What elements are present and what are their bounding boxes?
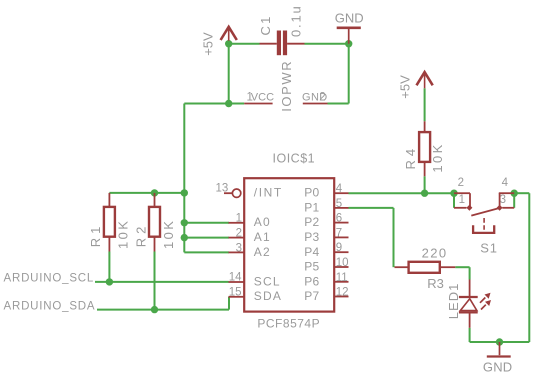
wire down to LED anode [469, 267, 471, 279]
svg-text:SCL: SCL [254, 274, 281, 288]
IOPWR VCC pin 1 [244, 103, 272, 105]
wire R1 R2 tops [109, 192, 184, 194]
svg-text:10K: 10K [430, 142, 445, 172]
wire SDA riser to pin 15 [228, 297, 230, 310]
wire IOPWR GND pin to GND [328, 103, 349, 105]
svg-text:A0: A0 [254, 215, 271, 229]
pin number 1 and name VCC [247, 91, 275, 103]
svg-text:P2: P2 [304, 215, 319, 229]
LED LED1 [459, 280, 491, 328]
svg-text:3: 3 [236, 242, 242, 254]
pin 12 stub P7 [334, 296, 348, 298]
svg-text:220: 220 [422, 246, 448, 261]
wire LED cathode down [469, 328, 471, 342]
svg-text:P7: P7 [304, 289, 319, 303]
svg-text:4: 4 [336, 183, 343, 195]
resistor R2 [149, 193, 160, 252]
ground GND top [337, 28, 361, 44]
wire net ARDUINO_SCL [95, 281, 229, 283]
wire C1 right to GND [305, 43, 349, 45]
wire bottom to LED cathode [470, 341, 530, 343]
svg-text:1: 1 [459, 194, 465, 206]
wire right edge down [528, 193, 530, 342]
svg-text:R2: R2 [134, 223, 149, 248]
resistor R1 [104, 193, 115, 252]
svg-text:2: 2 [458, 177, 464, 189]
pin 3 stub A2 [229, 251, 245, 253]
pin 2 stub A1 [229, 237, 245, 239]
pin 10 stub P5 [334, 266, 348, 268]
junction rail/A1 [181, 234, 188, 241]
svg-text:R1: R1 [88, 223, 103, 248]
wire to pin A0 [184, 222, 229, 224]
svg-text:GND: GND [335, 11, 364, 26]
svg-text:15: 15 [229, 286, 242, 298]
resistor R4 [419, 121, 430, 176]
svg-text:P0: P0 [304, 186, 319, 200]
svg-text:P3: P3 [304, 230, 319, 244]
junction rail/A0 [181, 219, 188, 226]
svg-text:SDA: SDA [254, 289, 282, 303]
wire net ARDUINO_SDA [97, 309, 229, 311]
wire switch right [514, 192, 529, 194]
svg-text:C1: C1 [258, 14, 273, 35]
wire VCC rail down left side [183, 104, 185, 253]
wire GND down to IOPWR GND pin [348, 44, 350, 104]
junction switch left [450, 190, 457, 197]
pin 5 stub P1 [334, 207, 348, 209]
pin 13 /INT stub and bubble [224, 189, 241, 197]
svg-text:A2: A2 [254, 245, 271, 259]
svg-text:LED1: LED1 [446, 283, 461, 320]
wire R3 right [455, 266, 469, 268]
svg-text:+5V: +5V [201, 32, 216, 56]
junction VCC node [225, 100, 232, 107]
junction switch right [511, 190, 518, 197]
wire +5V to R4 top [424, 88, 426, 121]
pin name GND and number 2 [302, 91, 328, 103]
pin 11 stub P6 [334, 281, 348, 283]
svg-text:3: 3 [500, 194, 506, 206]
svg-text:4: 4 [502, 177, 509, 189]
wire VCC node to IOPWR VCC pin [229, 103, 245, 105]
svg-text:2: 2 [319, 91, 325, 103]
svg-text:/INT: /INT [254, 186, 283, 200]
wire P1 down [393, 208, 395, 267]
svg-text:GND: GND [483, 359, 513, 374]
svg-text:P1: P1 [304, 200, 319, 214]
junction GND bottom [496, 338, 503, 345]
svg-text:A1: A1 [254, 230, 271, 244]
svg-text:VCC: VCC [251, 91, 274, 103]
svg-text:P4: P4 [304, 245, 319, 259]
wire R2 bottom to SDA [154, 252, 156, 310]
svg-text:2: 2 [236, 228, 242, 240]
svg-text:S1: S1 [480, 240, 498, 255]
svg-text:ARDUINO_SDA: ARDUINO_SDA [4, 301, 96, 313]
svg-text:14: 14 [229, 272, 242, 284]
svg-text:5: 5 [336, 198, 342, 210]
svg-text:IOPWR: IOPWR [279, 60, 294, 112]
svg-text:6: 6 [336, 213, 342, 225]
junction rail/R tops [181, 189, 188, 196]
ground GND bottom [487, 342, 511, 357]
wire +5V down to VCC node [228, 44, 230, 104]
wire switch pins 3-4 [513, 193, 515, 208]
wire switch pins 1-2 [453, 193, 455, 208]
wire P1 out [349, 207, 394, 209]
svg-text:ARDUINO_SCL: ARDUINO_SCL [4, 273, 95, 285]
resistor R3 [395, 262, 456, 273]
svg-text:1: 1 [236, 213, 242, 225]
junction R2 top [151, 189, 158, 196]
pin 15 stub SDA [229, 296, 245, 298]
pin 7 stub P3 [334, 236, 348, 238]
pin 6 stub P2 [334, 222, 348, 224]
op IC box U1 PCF8574P [244, 178, 334, 311]
supply +5V right arrow [417, 72, 433, 88]
wire R1 bottom to SCL [108, 252, 110, 282]
svg-text:P6: P6 [304, 274, 319, 288]
wire to pin A2 [184, 251, 229, 253]
svg-text:9: 9 [336, 242, 342, 254]
svg-text:+5V: +5V [397, 75, 412, 99]
svg-text:7: 7 [336, 227, 342, 239]
pin 4 stub P0 [334, 192, 348, 194]
svg-text:12: 12 [336, 287, 349, 299]
wire to pin A1 [184, 237, 229, 239]
svg-text:10: 10 [336, 257, 349, 269]
svg-text:R4: R4 [403, 145, 418, 170]
svg-text:10K: 10K [115, 219, 130, 249]
wire +5V to C1 left [229, 43, 260, 45]
IOPWR GND pin 2 [303, 103, 328, 105]
svg-text:PCF8574P: PCF8574P [257, 317, 320, 331]
pin 9 stub P4 [334, 251, 348, 253]
supply +5V left arrow [221, 27, 237, 41]
svg-text:P5: P5 [304, 260, 319, 274]
svg-text:10K: 10K [161, 219, 176, 249]
svg-text:IOIC$1: IOIC$1 [273, 151, 316, 165]
switch S1 [454, 193, 514, 233]
junction R2/SDA [151, 306, 158, 313]
junction R1/SCL [106, 278, 113, 285]
junction R4/P0 [421, 190, 428, 197]
wire R4 bottom to P0 net [424, 176, 426, 193]
svg-text:11: 11 [336, 272, 348, 284]
pin 1 stub A0 [229, 222, 245, 224]
junction +5V/C1 [225, 40, 232, 47]
capacitor C1 [260, 31, 305, 56]
junction GND/C1 [345, 40, 352, 47]
pin 14 stub SCL [229, 281, 245, 283]
svg-text:13: 13 [216, 183, 229, 195]
wire P0 to switch [349, 192, 455, 194]
wire VCC node left [184, 103, 228, 105]
svg-text:0.1u: 0.1u [288, 4, 303, 37]
svg-text:R3: R3 [427, 276, 444, 291]
